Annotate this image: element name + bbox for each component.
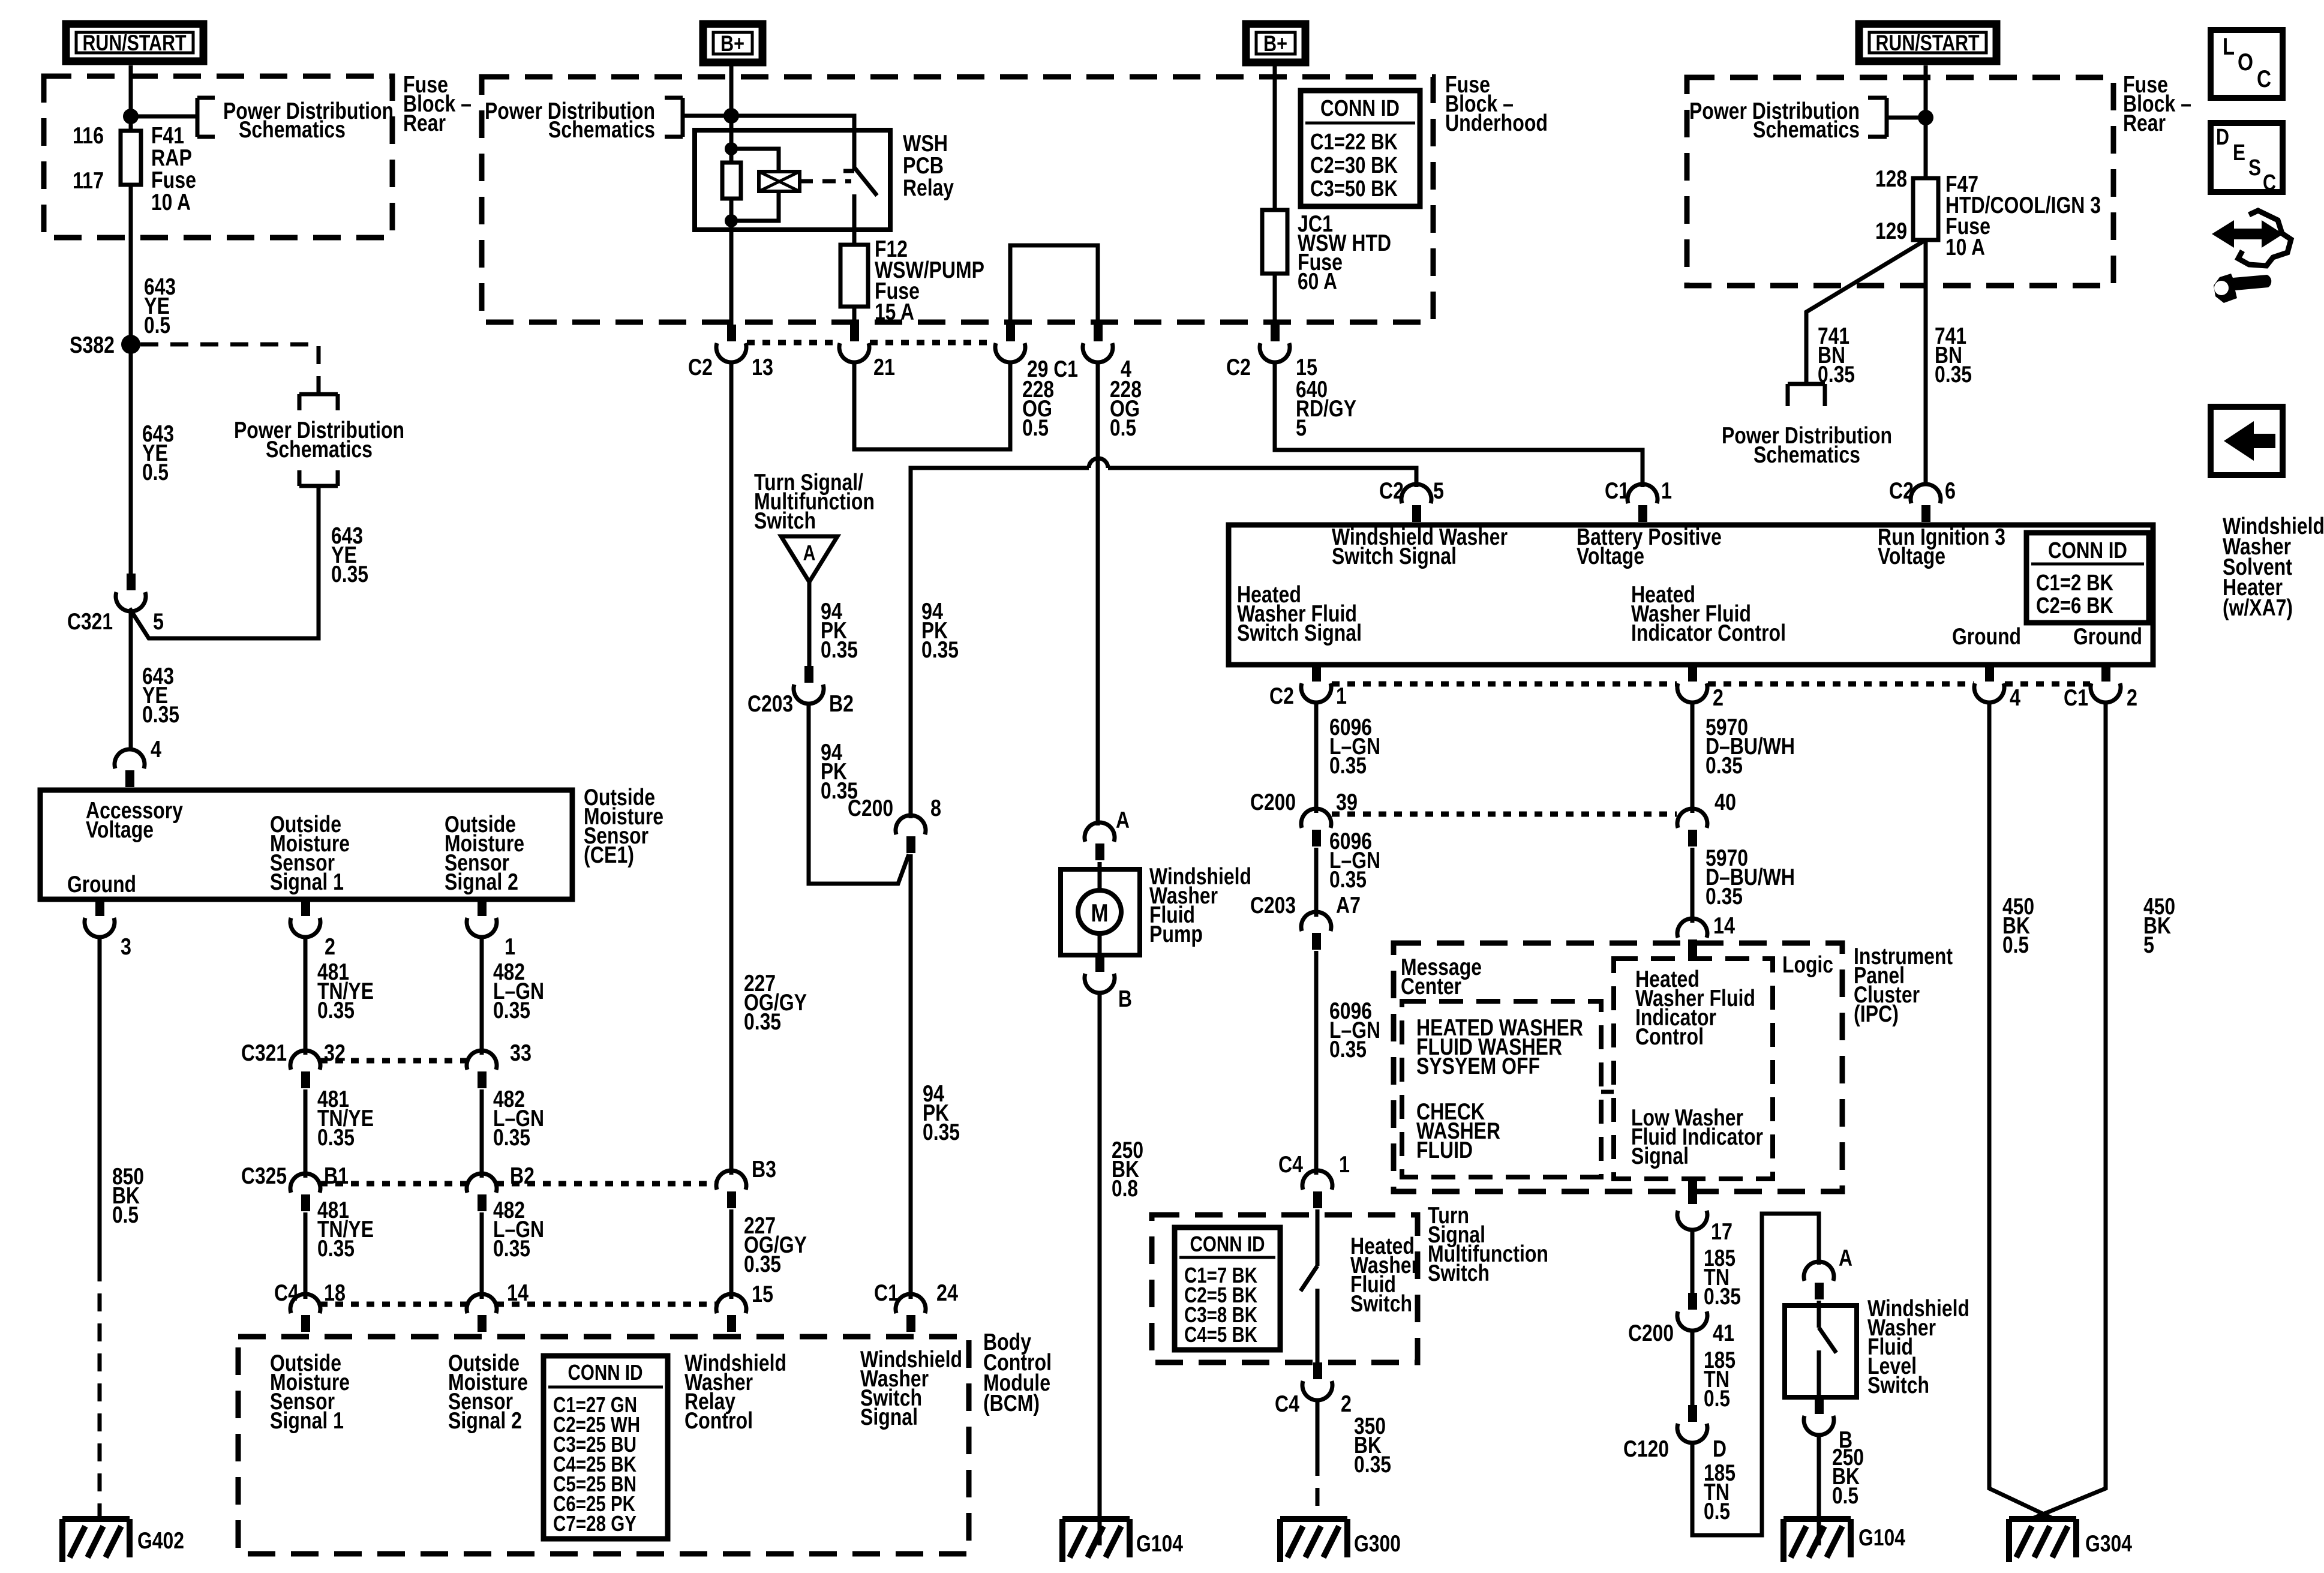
- svg-text:0.8: 0.8: [1112, 1176, 1138, 1202]
- wire heater ground pin 4 to G304: [1989, 701, 2054, 1519]
- svg-text:Pump: Pump: [1149, 921, 1203, 947]
- svg-text:4: 4: [2010, 685, 2020, 711]
- svg-text:21: 21: [873, 355, 895, 380]
- outside moisture sensor box: [40, 790, 572, 899]
- connector C2 13: [727, 325, 736, 341]
- wire 14 blade into logic box: [1691, 957, 1695, 959]
- svg-text:0.35: 0.35: [744, 1009, 781, 1035]
- svg-text:5: 5: [1296, 415, 1307, 441]
- wire level switch B to ground G104: [1817, 1434, 1821, 1545]
- wire pump B to ground G104: [1098, 992, 1102, 1545]
- svg-text:CONN ID: CONN ID: [1190, 1232, 1265, 1256]
- WSH PCB relay box: [695, 130, 890, 230]
- svg-text:Voltage: Voltage: [1878, 544, 1945, 569]
- svg-text:15: 15: [752, 1281, 773, 1307]
- svg-text:B3: B3: [752, 1157, 776, 1182]
- svg-text:0.35: 0.35: [1329, 753, 1367, 779]
- svg-text:Schematics: Schematics: [266, 437, 373, 463]
- body control module dashed box: [238, 1337, 969, 1554]
- svg-text:2: 2: [2127, 685, 2137, 711]
- svg-text:CONN ID: CONN ID: [1320, 96, 1400, 121]
- svg-text:B+: B+: [1263, 31, 1287, 56]
- dotted connector row 13-21: [747, 340, 839, 346]
- node right branch: [1918, 110, 1933, 125]
- instrument panel cluster dashed box: [1394, 943, 1842, 1191]
- power distribution schematics bracket (right): [1868, 98, 1887, 137]
- wire 17 to C200 41: [1691, 1229, 1695, 1296]
- svg-text:CONN ID: CONN ID: [568, 1360, 643, 1385]
- connector C4 pin 18: [290, 1294, 320, 1313]
- svg-text:5: 5: [153, 609, 164, 635]
- svg-text:C203: C203: [1250, 893, 1296, 918]
- wire resistor lower to relay bottom: [729, 199, 734, 230]
- junction node on wire: [123, 109, 139, 124]
- wire F12 to connector 21: [852, 307, 857, 325]
- svg-text:Voltage: Voltage: [86, 817, 154, 843]
- svg-text:10 A: 10 A: [151, 190, 191, 215]
- relay coil element: [759, 172, 800, 191]
- svg-text:C4: C4: [274, 1280, 299, 1306]
- connector C4 pin 14: [467, 1294, 497, 1313]
- svg-text:Rear: Rear: [403, 110, 446, 136]
- wire C120 D down around to level switch A: [1692, 1214, 1819, 1535]
- svg-text:(CE1): (CE1): [584, 842, 634, 868]
- connector pin 2 below sensor box: [301, 899, 310, 916]
- connector B below pump: [1095, 955, 1104, 972]
- power distribution schematics bracket (below F47): [1788, 384, 1825, 406]
- wire heater ground C1 2 to G304: [2031, 701, 2106, 1519]
- svg-text:(IPC): (IPC): [1854, 1001, 1899, 1027]
- dotted connector row C4 18-14: [320, 1302, 467, 1307]
- wire C4 2 to ground solid: [1316, 1399, 1320, 1458]
- svg-text:C7=28 GY: C7=28 GY: [553, 1511, 636, 1536]
- svg-text:0.5: 0.5: [144, 313, 170, 338]
- svg-text:C1=22 BK: C1=22 BK: [1310, 130, 1398, 155]
- svg-text:Rear: Rear: [2123, 110, 2166, 136]
- svg-text:0.35: 0.35: [493, 1125, 530, 1151]
- svg-text:0.35: 0.35: [493, 1236, 530, 1262]
- level switch contacts: [1819, 1301, 1836, 1397]
- connector C2 6 at heater top: [1911, 484, 1941, 503]
- svg-text:5: 5: [1433, 478, 1444, 504]
- fuse F41: [121, 131, 141, 185]
- svg-text:Signal 1: Signal 1: [270, 869, 344, 895]
- svg-text:RUN/START: RUN/START: [83, 31, 187, 55]
- windshield washer fluid pump box: [1061, 869, 1140, 955]
- svg-text:2: 2: [1341, 1391, 1352, 1417]
- svg-text:S382: S382: [70, 332, 115, 358]
- svg-text:C200: C200: [1250, 789, 1296, 815]
- svg-text:C: C: [2263, 170, 2276, 196]
- wire 40 down to 14: [1691, 848, 1695, 923]
- svg-text:A: A: [1116, 807, 1130, 833]
- svg-text:6: 6: [1945, 478, 1956, 504]
- svg-text:Schematics: Schematics: [1753, 117, 1860, 143]
- svg-text:(BCM): (BCM): [983, 1391, 1040, 1416]
- relay switch contact and blade: [843, 167, 877, 245]
- wire B3 to 15: [729, 1209, 734, 1299]
- wire logic box output down: [1688, 1178, 1697, 1204]
- svg-text:C1: C1: [2064, 685, 2088, 711]
- svg-text:0.5: 0.5: [1704, 1499, 1730, 1524]
- wire signal1 down to C321 32: [304, 936, 308, 1055]
- svg-text:Ground: Ground: [2073, 624, 2142, 650]
- svg-text:C4: C4: [1275, 1391, 1299, 1417]
- svg-text:C2=30 BK: C2=30 BK: [1310, 153, 1398, 178]
- svg-text:1: 1: [1336, 683, 1347, 709]
- svg-text:Ground: Ground: [67, 872, 136, 897]
- connector 4 into outside moisture sensor: [115, 749, 145, 769]
- wire C2 5 horizontal with hop over pump wire: [911, 468, 1089, 818]
- ground G104 (pump): [1062, 1519, 1130, 1562]
- svg-text:A: A: [1839, 1245, 1852, 1271]
- svg-text:A7: A7: [1336, 893, 1361, 918]
- ground G104 (level switch): [1783, 1519, 1851, 1562]
- node B+ branch: [723, 108, 739, 124]
- svg-text:Control: Control: [1635, 1024, 1704, 1050]
- wire 39 to C203 A7: [1314, 848, 1319, 917]
- svg-text:G104: G104: [1136, 1531, 1183, 1557]
- connector C120 D: [1688, 1405, 1697, 1422]
- wire node to PDS bracket (right): [1887, 116, 1926, 120]
- connector C200 40: [1677, 809, 1707, 828]
- wire B2 down and right to junction: [809, 703, 909, 884]
- connector B below level switch: [1815, 1397, 1824, 1414]
- dotted C200 row (39-40): [1332, 812, 1677, 817]
- wire node over to relay switch: [731, 116, 854, 170]
- svg-text:C1: C1: [874, 1280, 899, 1306]
- svg-text:1: 1: [1661, 478, 1672, 504]
- svg-text:129: 129: [1875, 218, 1907, 244]
- svg-text:4: 4: [151, 737, 161, 763]
- connector C4 1 (heated washer fluid switch): [1302, 1170, 1332, 1190]
- connector 15 at BCM: [716, 1294, 746, 1313]
- svg-text:0.5: 0.5: [142, 460, 169, 485]
- wire C200 8 down to BCM C1 24: [909, 854, 913, 1299]
- ground G402: [62, 1519, 130, 1562]
- svg-text:C1=2 BK: C1=2 BK: [2036, 571, 2113, 596]
- svg-text:C2=6 BK: C2=6 BK: [2036, 593, 2113, 619]
- svg-text:60 A: 60 A: [1298, 269, 1337, 295]
- svg-text:C2: C2: [1889, 478, 1914, 504]
- wire C4 2 to ground dashed: [1316, 1458, 1320, 1519]
- connector C200 39: [1301, 809, 1331, 828]
- svg-text:Ground: Ground: [1952, 624, 2021, 650]
- svg-text:Switch: Switch: [1428, 1260, 1490, 1286]
- connector pin B2 (left): [467, 1173, 497, 1193]
- svg-text:Switch: Switch: [1350, 1291, 1412, 1317]
- svg-text:0.35: 0.35: [1329, 1037, 1367, 1062]
- svg-text:D: D: [2216, 125, 2229, 150]
- connector C321 pin 32: [290, 1050, 320, 1070]
- heater bottom connector C1 2: [2101, 665, 2110, 682]
- fuse F47: [1913, 178, 1938, 240]
- ground G300: [1280, 1519, 1347, 1562]
- heater bottom connector C2 1: [1312, 665, 1321, 682]
- svg-text:B+: B+: [720, 31, 744, 56]
- fuse block dashed box (middle): [482, 77, 1433, 322]
- terminal RUN/START (right): [1859, 24, 1996, 61]
- splice S382: [121, 335, 140, 354]
- connector B3: [716, 1170, 746, 1190]
- wire relay feed down to connector C2 13: [729, 230, 734, 325]
- svg-text:C1: C1: [1605, 478, 1629, 504]
- svg-text:Switch Signal: Switch Signal: [1332, 544, 1457, 569]
- svg-text:0.35: 0.35: [1706, 753, 1743, 779]
- wire pin 4 down to washer pump (with hop): [1096, 361, 1100, 825]
- svg-text:2: 2: [1713, 685, 1724, 711]
- ground wire 850 BK 0.5 dashed part: [98, 1263, 102, 1519]
- svg-text:Center: Center: [1401, 974, 1461, 999]
- svg-text:0.35: 0.35: [317, 998, 355, 1023]
- svg-text:C4: C4: [1278, 1152, 1303, 1178]
- svg-text:C200: C200: [848, 795, 893, 821]
- wire 21 loop to 29 C1: [854, 361, 1010, 449]
- wire PDS down and left to C321 pin 5: [130, 486, 319, 638]
- heated washer fluid switch contacts: [1301, 1209, 1317, 1362]
- fuse JC1: [1262, 210, 1287, 274]
- icon DESC box: [2211, 123, 2283, 192]
- svg-text:C4=5 BK: C4=5 BK: [1184, 1322, 1257, 1347]
- connector C321 pin 5: [127, 574, 136, 590]
- dashed wire S382 to power distribution reference: [140, 344, 319, 393]
- svg-text:Schematics: Schematics: [548, 117, 655, 143]
- svg-text:0.35: 0.35: [921, 637, 959, 663]
- wire F47 branch diagonal to PDS: [1806, 240, 1926, 384]
- svg-text:Schematics: Schematics: [1753, 442, 1860, 468]
- svg-text:Control: Control: [684, 1408, 753, 1434]
- svg-text:117: 117: [73, 168, 104, 194]
- svg-text:G304: G304: [2085, 1531, 2132, 1557]
- wire relay control down to B3: [729, 361, 734, 1175]
- svg-text:13: 13: [752, 355, 773, 380]
- wire RUN/START down to fuse F41: [129, 65, 133, 131]
- svg-text:0.35: 0.35: [142, 702, 179, 728]
- relay coil resistor: [725, 142, 738, 155]
- svg-text:40: 40: [1715, 789, 1736, 815]
- svg-text:3: 3: [121, 934, 131, 960]
- svg-text:0.35: 0.35: [821, 637, 858, 663]
- svg-text:C2: C2: [1269, 683, 1294, 709]
- fuse block rear dashed box (left): [44, 76, 392, 238]
- dotted connector row C325 B2-B3: [496, 1181, 717, 1187]
- svg-text:0.35: 0.35: [1706, 884, 1743, 909]
- svg-text:0.35: 0.35: [1354, 1452, 1391, 1478]
- svg-text:(w/XA7): (w/XA7): [2223, 595, 2293, 621]
- turn signal multifunction switch triangle A: [781, 536, 837, 582]
- svg-text:Voltage: Voltage: [1577, 544, 1644, 569]
- svg-text:C2: C2: [1226, 355, 1251, 380]
- wire RUN/START right down to F47: [1924, 65, 1928, 178]
- heater bottom connector 4: [1985, 665, 1994, 682]
- svg-text:C203: C203: [747, 691, 793, 717]
- dotted connector row C321 32-33: [320, 1058, 467, 1064]
- svg-text:Schematics: Schematics: [239, 117, 346, 143]
- terminal RUN/START (left): [66, 24, 203, 61]
- svg-text:5: 5: [2143, 932, 2154, 958]
- svg-text:33: 33: [510, 1040, 532, 1066]
- svg-text:C2: C2: [1379, 478, 1404, 504]
- svg-text:C321: C321: [67, 609, 113, 635]
- wire B1 to C4 18: [304, 1212, 308, 1299]
- svg-text:17: 17: [1711, 1219, 1733, 1245]
- svg-text:2: 2: [325, 934, 335, 960]
- heater bottom connector 2: [1688, 665, 1697, 682]
- dotted heater connector row: [1332, 682, 1677, 687]
- connector 17 below IPC: [1677, 1211, 1707, 1230]
- svg-text:41: 41: [1713, 1320, 1734, 1346]
- svg-text:Indicator Control: Indicator Control: [1631, 620, 1786, 646]
- connector C203 B2: [804, 666, 813, 683]
- connector C2 15 (underhood): [1271, 325, 1280, 341]
- svg-text:14: 14: [1713, 913, 1735, 939]
- svg-text:CONN ID: CONN ID: [2048, 538, 2127, 563]
- svg-text:0.5: 0.5: [1704, 1386, 1730, 1412]
- svg-text:S: S: [2248, 155, 2261, 181]
- power distribution schematics bracket (vertical, below S382): [299, 394, 338, 410]
- wire F47 down to C2 6: [1924, 240, 1928, 485]
- svg-text:0.35: 0.35: [317, 1236, 355, 1262]
- svg-text:C: C: [2257, 66, 2271, 92]
- svg-text:M: M: [1091, 899, 1109, 927]
- fuse block rear dashed box (right): [1687, 77, 2113, 286]
- svg-text:0.35: 0.35: [1704, 1284, 1741, 1310]
- wire node to PDS bracket (middle): [683, 114, 731, 118]
- svg-text:0.5: 0.5: [112, 1202, 139, 1228]
- connector C200 8: [896, 815, 926, 834]
- relay coil branch wires: [731, 149, 779, 221]
- connector 21: [850, 325, 859, 341]
- dotted connector row 21-29C1: [870, 340, 995, 346]
- svg-text:0.5: 0.5: [2002, 932, 2029, 958]
- svg-text:Switch: Switch: [754, 508, 816, 534]
- wire triangle to C203 B2: [807, 582, 812, 666]
- svg-text:0.35: 0.35: [1818, 362, 1855, 388]
- windshield washer fluid level switch connector A: [1804, 1262, 1834, 1281]
- icon back arrow box: [2211, 407, 2283, 475]
- connector pin 33: [467, 1050, 497, 1070]
- svg-text:G402: G402: [137, 1528, 184, 1554]
- wire relay output through F12: [852, 230, 857, 247]
- svg-text:0.35: 0.35: [744, 1251, 781, 1277]
- svg-text:B2: B2: [829, 691, 854, 717]
- terminal B+ (left): [703, 24, 762, 62]
- svg-text:G104: G104: [1858, 1525, 1905, 1551]
- svg-text:Relay: Relay: [903, 175, 954, 201]
- svg-text:Logic: Logic: [1782, 952, 1833, 978]
- connector C4 2 below switch: [1313, 1362, 1322, 1379]
- wire A7 down to C4 1: [1314, 951, 1319, 1175]
- svg-text:C200: C200: [1628, 1320, 1674, 1346]
- svg-text:RUN/START: RUN/START: [1876, 31, 1980, 55]
- svg-text:Switch: Switch: [1867, 1373, 1929, 1398]
- svg-text:10 A: 10 A: [1945, 235, 1985, 260]
- logic inner dashed box: [1614, 959, 1773, 1179]
- connector pin 1 below sensor box: [478, 899, 487, 916]
- svg-text:G300: G300: [1354, 1531, 1401, 1557]
- wire B+ down into relay: [729, 65, 734, 163]
- svg-text:E: E: [2233, 140, 2245, 166]
- heated washer switch CONN ID table: [1175, 1227, 1280, 1350]
- wire F41 down to S382: [129, 185, 133, 344]
- svg-text:0.35: 0.35: [331, 562, 368, 587]
- svg-text:D: D: [1713, 1436, 1727, 1462]
- dotted connector row C325 B1-B2: [320, 1181, 467, 1187]
- connector 14 at IPC: [1677, 918, 1707, 938]
- svg-text:0.5: 0.5: [1110, 415, 1136, 441]
- svg-text:Switch Signal: Switch Signal: [1237, 620, 1362, 646]
- connector 4 (fuse block): [1094, 325, 1103, 341]
- heated washer fluid switch dashed box: [1152, 1215, 1418, 1362]
- svg-text:C120: C120: [1623, 1436, 1669, 1462]
- wire S382 down to connector C321: [129, 344, 133, 574]
- icon arrow wrench: [2212, 220, 2283, 248]
- svg-text:0.35: 0.35: [1935, 362, 1972, 388]
- power distribution schematics bracket bottom: [299, 470, 338, 486]
- svg-text:24: 24: [936, 1280, 958, 1306]
- svg-text:1: 1: [505, 934, 515, 960]
- svg-text:O: O: [2238, 49, 2253, 76]
- wire node to PDS bracket (left): [131, 115, 197, 119]
- power distribution schematics bracket (middle): [665, 98, 683, 137]
- wire signal2 down to 33: [480, 936, 484, 1055]
- svg-text:0.35: 0.35: [1329, 867, 1367, 893]
- svg-text:A: A: [803, 541, 816, 565]
- wire 32 to B1: [304, 1089, 308, 1178]
- svg-text:0.35: 0.35: [493, 998, 530, 1023]
- wire 640 RD/GY down and right to C1 1: [1275, 361, 1643, 487]
- ground wire 850 BK 0.5 solid part: [98, 936, 102, 1263]
- svg-text:SYSYEM OFF: SYSYEM OFF: [1416, 1053, 1540, 1079]
- svg-text:C321: C321: [241, 1040, 287, 1066]
- heater CONN ID table: [2026, 533, 2149, 623]
- svg-text:Signal 1: Signal 1: [270, 1408, 344, 1434]
- message center inner dashed box: [1402, 1001, 1601, 1177]
- wire 33 to B2: [480, 1089, 484, 1178]
- wire JC1 to connector C2 15: [1273, 274, 1277, 325]
- connector C200 41: [1688, 1293, 1697, 1310]
- wire heater pin1 down to C200 39: [1314, 701, 1319, 813]
- fuse F12: [840, 245, 868, 307]
- windshield washer fluid pump connector A: [1085, 822, 1115, 842]
- connector C1 1 at heater top: [1628, 484, 1658, 503]
- svg-text:0.35: 0.35: [317, 1125, 355, 1151]
- svg-text:Underhood: Underhood: [1445, 110, 1548, 136]
- wire C321 down to connector 4: [129, 610, 133, 750]
- svg-text:1: 1: [1339, 1152, 1350, 1178]
- svg-text:Signal: Signal: [860, 1404, 918, 1430]
- terminal B+ (right): [1246, 24, 1305, 62]
- connector C1 24 at BCM: [896, 1294, 926, 1313]
- ground G304: [2009, 1519, 2076, 1562]
- svg-text:FLUID: FLUID: [1416, 1137, 1473, 1163]
- windshield washer fluid level switch box: [1785, 1305, 1857, 1397]
- wire B+ right down to JC1: [1273, 65, 1277, 211]
- svg-text:0.5: 0.5: [1022, 415, 1049, 441]
- connector C325 pin B1: [290, 1173, 320, 1193]
- connector pin 3 below sensor box: [95, 899, 104, 916]
- dotted connector row C4 14-15: [496, 1302, 717, 1307]
- wire loop inside fuse block 29C1 to 4: [1010, 245, 1098, 325]
- svg-text:B: B: [1118, 986, 1132, 1012]
- wire B2 to 14: [480, 1212, 484, 1299]
- svg-text:8: 8: [930, 795, 941, 821]
- underhood CONN ID table: [1301, 91, 1420, 206]
- svg-text:116: 116: [73, 123, 104, 149]
- svg-text:C3=50 BK: C3=50 BK: [1310, 176, 1398, 202]
- svg-text:15 A: 15 A: [875, 299, 914, 325]
- svg-text:Signal 2: Signal 2: [448, 1408, 522, 1434]
